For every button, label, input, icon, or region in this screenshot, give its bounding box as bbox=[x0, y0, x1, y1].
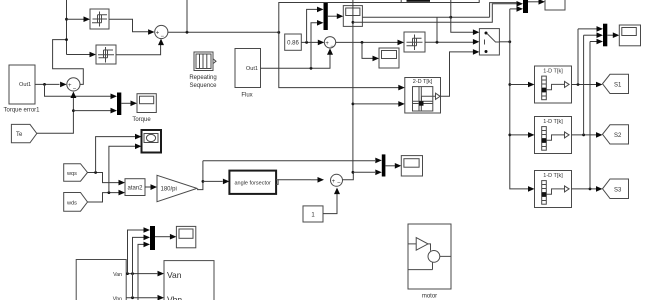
wire outport to sumC bbox=[35, 83, 60, 85]
from tag wds bbox=[64, 193, 88, 212]
svg-text:angle forsector: angle forsector bbox=[235, 181, 272, 187]
svg-text:+: + bbox=[325, 41, 329, 47]
svg-text:Flux: Flux bbox=[241, 93, 252, 99]
subsystem angle forsector bbox=[229, 171, 278, 194]
wire switch down to lookup tables bbox=[510, 42, 528, 189]
source Repeating Sequence bbox=[189, 52, 217, 89]
svg-text:S2: S2 bbox=[614, 133, 622, 139]
wire constant 0.86 to sumB bbox=[301, 41, 318, 43]
cut-off block bottom edge at top bbox=[407, 0, 431, 2]
svg-text:2-D T[k]: 2-D T[k] bbox=[413, 79, 433, 85]
wire Te branch to Mux4 in2 bbox=[73, 110, 111, 112]
wire switch output node bbox=[499, 41, 509, 43]
wire to relay R1 bbox=[67, 18, 85, 20]
scope Scope5 bbox=[401, 156, 422, 176]
scope Scope2 bbox=[379, 48, 399, 68]
wire to 1-D no2 bbox=[510, 134, 528, 136]
wire gain up to rail and to angle forsector bbox=[197, 161, 203, 190]
mux Mux7 bbox=[324, 3, 328, 30]
mux Mux2 bbox=[523, 0, 528, 13]
wire Te to sumC bottom bbox=[37, 98, 74, 134]
wire wqs to atan2 in1 bbox=[88, 173, 120, 183]
wire sumB to relay R3 bbox=[336, 41, 398, 43]
goto tag S1 bbox=[603, 74, 629, 93]
svg-text:Vbn: Vbn bbox=[113, 297, 122, 300]
wire Flux output to sumB bottom bbox=[261, 55, 331, 69]
svg-text:Out1: Out1 bbox=[19, 82, 31, 88]
wire relay R2 to sumA bottom bbox=[116, 45, 161, 55]
svg-text:Vbn: Vbn bbox=[167, 295, 182, 300]
relay R3 bbox=[404, 32, 425, 52]
wire sumA output to node bbox=[168, 31, 279, 33]
wire from top to switch in1 bbox=[451, 0, 473, 32]
xy graph block bbox=[142, 130, 162, 153]
wire Mux4 to Torque scope bbox=[121, 102, 131, 104]
wire angle forsector to sumD bbox=[278, 179, 311, 181]
wire atan2 to gain bbox=[145, 186, 151, 188]
wire sumB branch to Scope2 bbox=[362, 42, 373, 58]
atan2 block bbox=[125, 179, 145, 196]
scope Scope7 cut at top bbox=[545, 0, 565, 10]
wire wqs branch to xy graph in1 bbox=[96, 137, 135, 173]
scope Scope1 bbox=[343, 6, 362, 27]
svg-text:wqs: wqs bbox=[66, 171, 77, 177]
svg-text:1-D T[k]: 1-D T[k] bbox=[543, 119, 563, 125]
wire theta net top to Mux2 in1 bbox=[353, 4, 517, 23]
svg-text:1-D T[k]: 1-D T[k] bbox=[543, 68, 563, 74]
wire 0.86 branch to Mux7 in1 bbox=[307, 9, 318, 42]
wire 1-D no1 to S1 bbox=[572, 84, 597, 86]
svg-text:0.86: 0.86 bbox=[287, 41, 299, 47]
wire S1 branch to Mux3 in1 bbox=[577, 29, 579, 85]
wire S3 branch to Mux3 in3 bbox=[589, 42, 591, 189]
svg-text:S1: S1 bbox=[614, 83, 622, 89]
relay R2 bbox=[96, 45, 116, 64]
wire 1-D no2 to S2 bbox=[572, 134, 597, 136]
wire 2-D T[k] output to switch in3 bbox=[441, 52, 474, 96]
mux Mux4 bbox=[117, 93, 121, 116]
sum SumB bbox=[324, 37, 335, 50]
mux Mux6 bbox=[150, 226, 155, 250]
outport block Torque error1 bbox=[3, 65, 40, 114]
svg-text:Torque error1: Torque error1 bbox=[3, 108, 40, 114]
wire relay R1 to sumA bbox=[109, 19, 148, 32]
wire Mux7 to Scope1 bbox=[328, 15, 337, 17]
svg-text:+: + bbox=[156, 31, 160, 37]
goto tag S2 bbox=[603, 125, 629, 144]
subsystem block bottom-right bbox=[164, 261, 214, 300]
wire constant 1 to sumD bottom bbox=[323, 194, 337, 214]
svg-text:+: + bbox=[68, 83, 72, 89]
wire Mux6 to Scope6 bbox=[155, 236, 171, 238]
wire wds to atan2 in2 bbox=[88, 193, 120, 202]
svg-text:Te: Te bbox=[16, 132, 23, 138]
lookup table 2-D T[k] bbox=[405, 78, 441, 114]
wire Vbn to subsystem bbox=[126, 297, 157, 299]
wire 1-D no3 to S3 bbox=[572, 188, 597, 190]
wire Van branch to Mux6 in1 bbox=[128, 230, 145, 274]
svg-text:Torque: Torque bbox=[132, 117, 151, 123]
scope Scope3 bbox=[619, 25, 640, 46]
wire stub above top rail bbox=[400, 0, 402, 3]
switch block bbox=[479, 29, 499, 55]
wire outport branch to Mux4 in1 bbox=[45, 84, 112, 96]
wire rail y17 up to Mux2 in1 bbox=[490, 3, 517, 18]
lookup table 1-D T[k] no2 bbox=[535, 117, 572, 154]
constant 1 bbox=[303, 206, 323, 222]
wire Mux2 to Scope7 bbox=[528, 1, 539, 3]
svg-text:Repeating: Repeating bbox=[189, 75, 216, 81]
relay R1 bbox=[90, 9, 109, 29]
wire relay R3 to switch in2 bbox=[425, 41, 473, 43]
wire Flux branch to Mux7 in2 bbox=[311, 23, 317, 69]
scope Scope6 bbox=[176, 226, 195, 247]
lookup table 1-D T[k] no3 bbox=[535, 171, 572, 208]
from tag Te bbox=[11, 124, 36, 142]
wire Mux3 to Scope3 bbox=[607, 34, 613, 36]
svg-text:+: + bbox=[332, 179, 336, 185]
svg-text:−: − bbox=[73, 87, 77, 93]
svg-text:Van: Van bbox=[113, 272, 122, 278]
svg-text:−: − bbox=[330, 44, 334, 50]
wire gain rail to Mux5 in1 bbox=[203, 160, 375, 162]
svg-text:S3: S3 bbox=[614, 188, 622, 194]
scope Torque bbox=[132, 94, 156, 123]
svg-text:Sequence: Sequence bbox=[189, 83, 217, 89]
svg-text:−: − bbox=[337, 181, 341, 187]
wire Vbn branch to Mux6 in2 bbox=[133, 237, 145, 297]
subsystem motor bbox=[408, 224, 451, 300]
svg-text:180/pi: 180/pi bbox=[161, 187, 177, 193]
svg-text:atan2: atan2 bbox=[127, 186, 143, 192]
wire sumC output loop to relays vertical bbox=[53, 40, 84, 85]
mux Mux3 bbox=[603, 24, 607, 47]
svg-text:wds: wds bbox=[66, 201, 77, 207]
from tag wqs bbox=[64, 164, 88, 182]
wire wds branch to xy graph in2 bbox=[109, 146, 135, 192]
svg-text:Van: Van bbox=[167, 270, 182, 280]
gain 180/pi bbox=[157, 175, 197, 201]
wire to 1-D no1 bbox=[510, 84, 528, 86]
wire relay feed vertical bbox=[66, 0, 68, 55]
wire stub up from sumA node bbox=[186, 0, 188, 32]
wire to relay R2 bbox=[67, 54, 91, 56]
wire branch to Mux5 in2 bbox=[353, 171, 375, 173]
mux Mux5 bbox=[382, 154, 386, 176]
subsystem Flux bbox=[235, 49, 261, 99]
wire Mux5 to Scope5 bbox=[385, 165, 395, 167]
wire Vcn branch to Mux6 in3 bbox=[138, 244, 145, 300]
constant 0.86 bbox=[285, 34, 302, 50]
lookup table 1-D T[k] no1 bbox=[535, 66, 572, 103]
wire S2 branch to Mux3 in2 bbox=[583, 35, 585, 135]
wire node vertical x278 with top and bottom branches bbox=[279, 0, 479, 88]
wire relay R3 branch up bbox=[436, 17, 438, 42]
sum SumA bbox=[155, 25, 168, 40]
wire branch to 2-D T[k] in2 bbox=[353, 103, 399, 105]
sum SumC torque-error bbox=[67, 78, 80, 93]
wire sumD output up to long vertical bbox=[343, 172, 354, 180]
wire long vertical theta net bbox=[352, 0, 354, 172]
goto tag S3 bbox=[603, 179, 629, 199]
svg-text:motor: motor bbox=[422, 294, 437, 300]
plant block bottom-left bbox=[76, 260, 126, 300]
sum SumD bbox=[331, 174, 343, 186]
wire Van to subsystem bbox=[126, 273, 157, 275]
svg-text:Out1: Out1 bbox=[246, 66, 258, 72]
wire switch to Mux2 in2 bbox=[509, 9, 511, 42]
svg-text:1-D T[k]: 1-D T[k] bbox=[543, 173, 563, 179]
wire horizontal rail y17 bbox=[363, 16, 490, 18]
